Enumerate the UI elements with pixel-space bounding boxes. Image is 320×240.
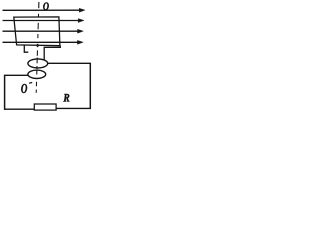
field line B1 [3, 8, 86, 12]
svg-text:R: R [63, 93, 70, 105]
wire coil to left [5, 74, 28, 76]
lead wire L2 [44, 46, 60, 61]
resistor R [34, 104, 56, 110]
wire left side [4, 75, 6, 110]
wire bottom right [57, 107, 91, 109]
prime tick of O' [29, 82, 32, 85]
svg-text:O: O [43, 1, 49, 13]
wire right side [89, 63, 91, 109]
wire bottom left [4, 108, 34, 110]
coil turn 1 [28, 59, 48, 68]
svg-text:O: O [21, 82, 27, 96]
wire coil to right [48, 62, 91, 64]
field line B4 [3, 40, 84, 44]
coil A rectangle [14, 17, 60, 46]
axis OO' dashed [36, 2, 39, 93]
lead wire L1 [24, 45, 28, 52]
field line B2 [3, 19, 85, 23]
field line B3 [3, 29, 84, 33]
coil turn 2 [28, 70, 46, 78]
